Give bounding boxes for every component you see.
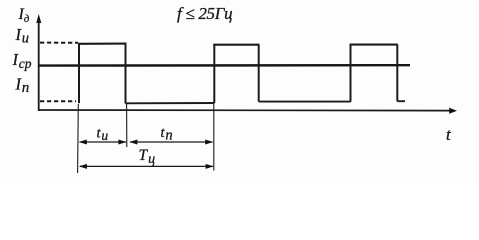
svg-text:tи: tи — [97, 125, 109, 143]
pulse 2 rising edge — [213, 45, 215, 103]
pulse 3 falling edge — [396, 45, 398, 102]
pulse 3 rising edge — [350, 45, 352, 102]
svg-text:Tц: Tц — [139, 147, 156, 167]
extension line at pulse 2 rise — [213, 104, 215, 171]
average current line Icp — [39, 64, 410, 67]
pulse 2 falling edge — [258, 45, 260, 102]
low segment 3 — [397, 100, 405, 102]
low segment 1 — [126, 102, 215, 104]
svg-text:Iп: Iп — [15, 75, 30, 97]
low segment 2 — [259, 101, 351, 103]
y-axis — [36, 14, 41, 111]
dimension arrow t_u — [79, 140, 127, 145]
svg-text:Iср: Iср — [12, 50, 32, 71]
dashed level In — [40, 100, 76, 102]
x-axis — [38, 108, 457, 114]
pulse 1 rising edge — [78, 44, 80, 103]
dimension arrow T_ts — [79, 164, 214, 169]
svg-text:t: t — [446, 125, 452, 144]
dimension arrow t_n — [129, 140, 213, 145]
svg-text:f ≤ 25Гц: f ≤ 25Гц — [177, 4, 232, 23]
svg-text:tп: tп — [161, 125, 173, 144]
dashed level Iu — [40, 42, 78, 44]
pulse 1 falling edge — [125, 44, 127, 104]
extension line at pulse 1 fall — [126, 104, 128, 147]
pulse 3 top — [350, 44, 398, 46]
svg-text:Iд: Iд — [18, 6, 30, 25]
svg-text:Iи: Iи — [15, 25, 30, 47]
pulse 2 top — [213, 44, 259, 46]
extension line at pulse 1 rise — [77, 104, 80, 173]
pulse 1 top — [78, 43, 127, 45]
